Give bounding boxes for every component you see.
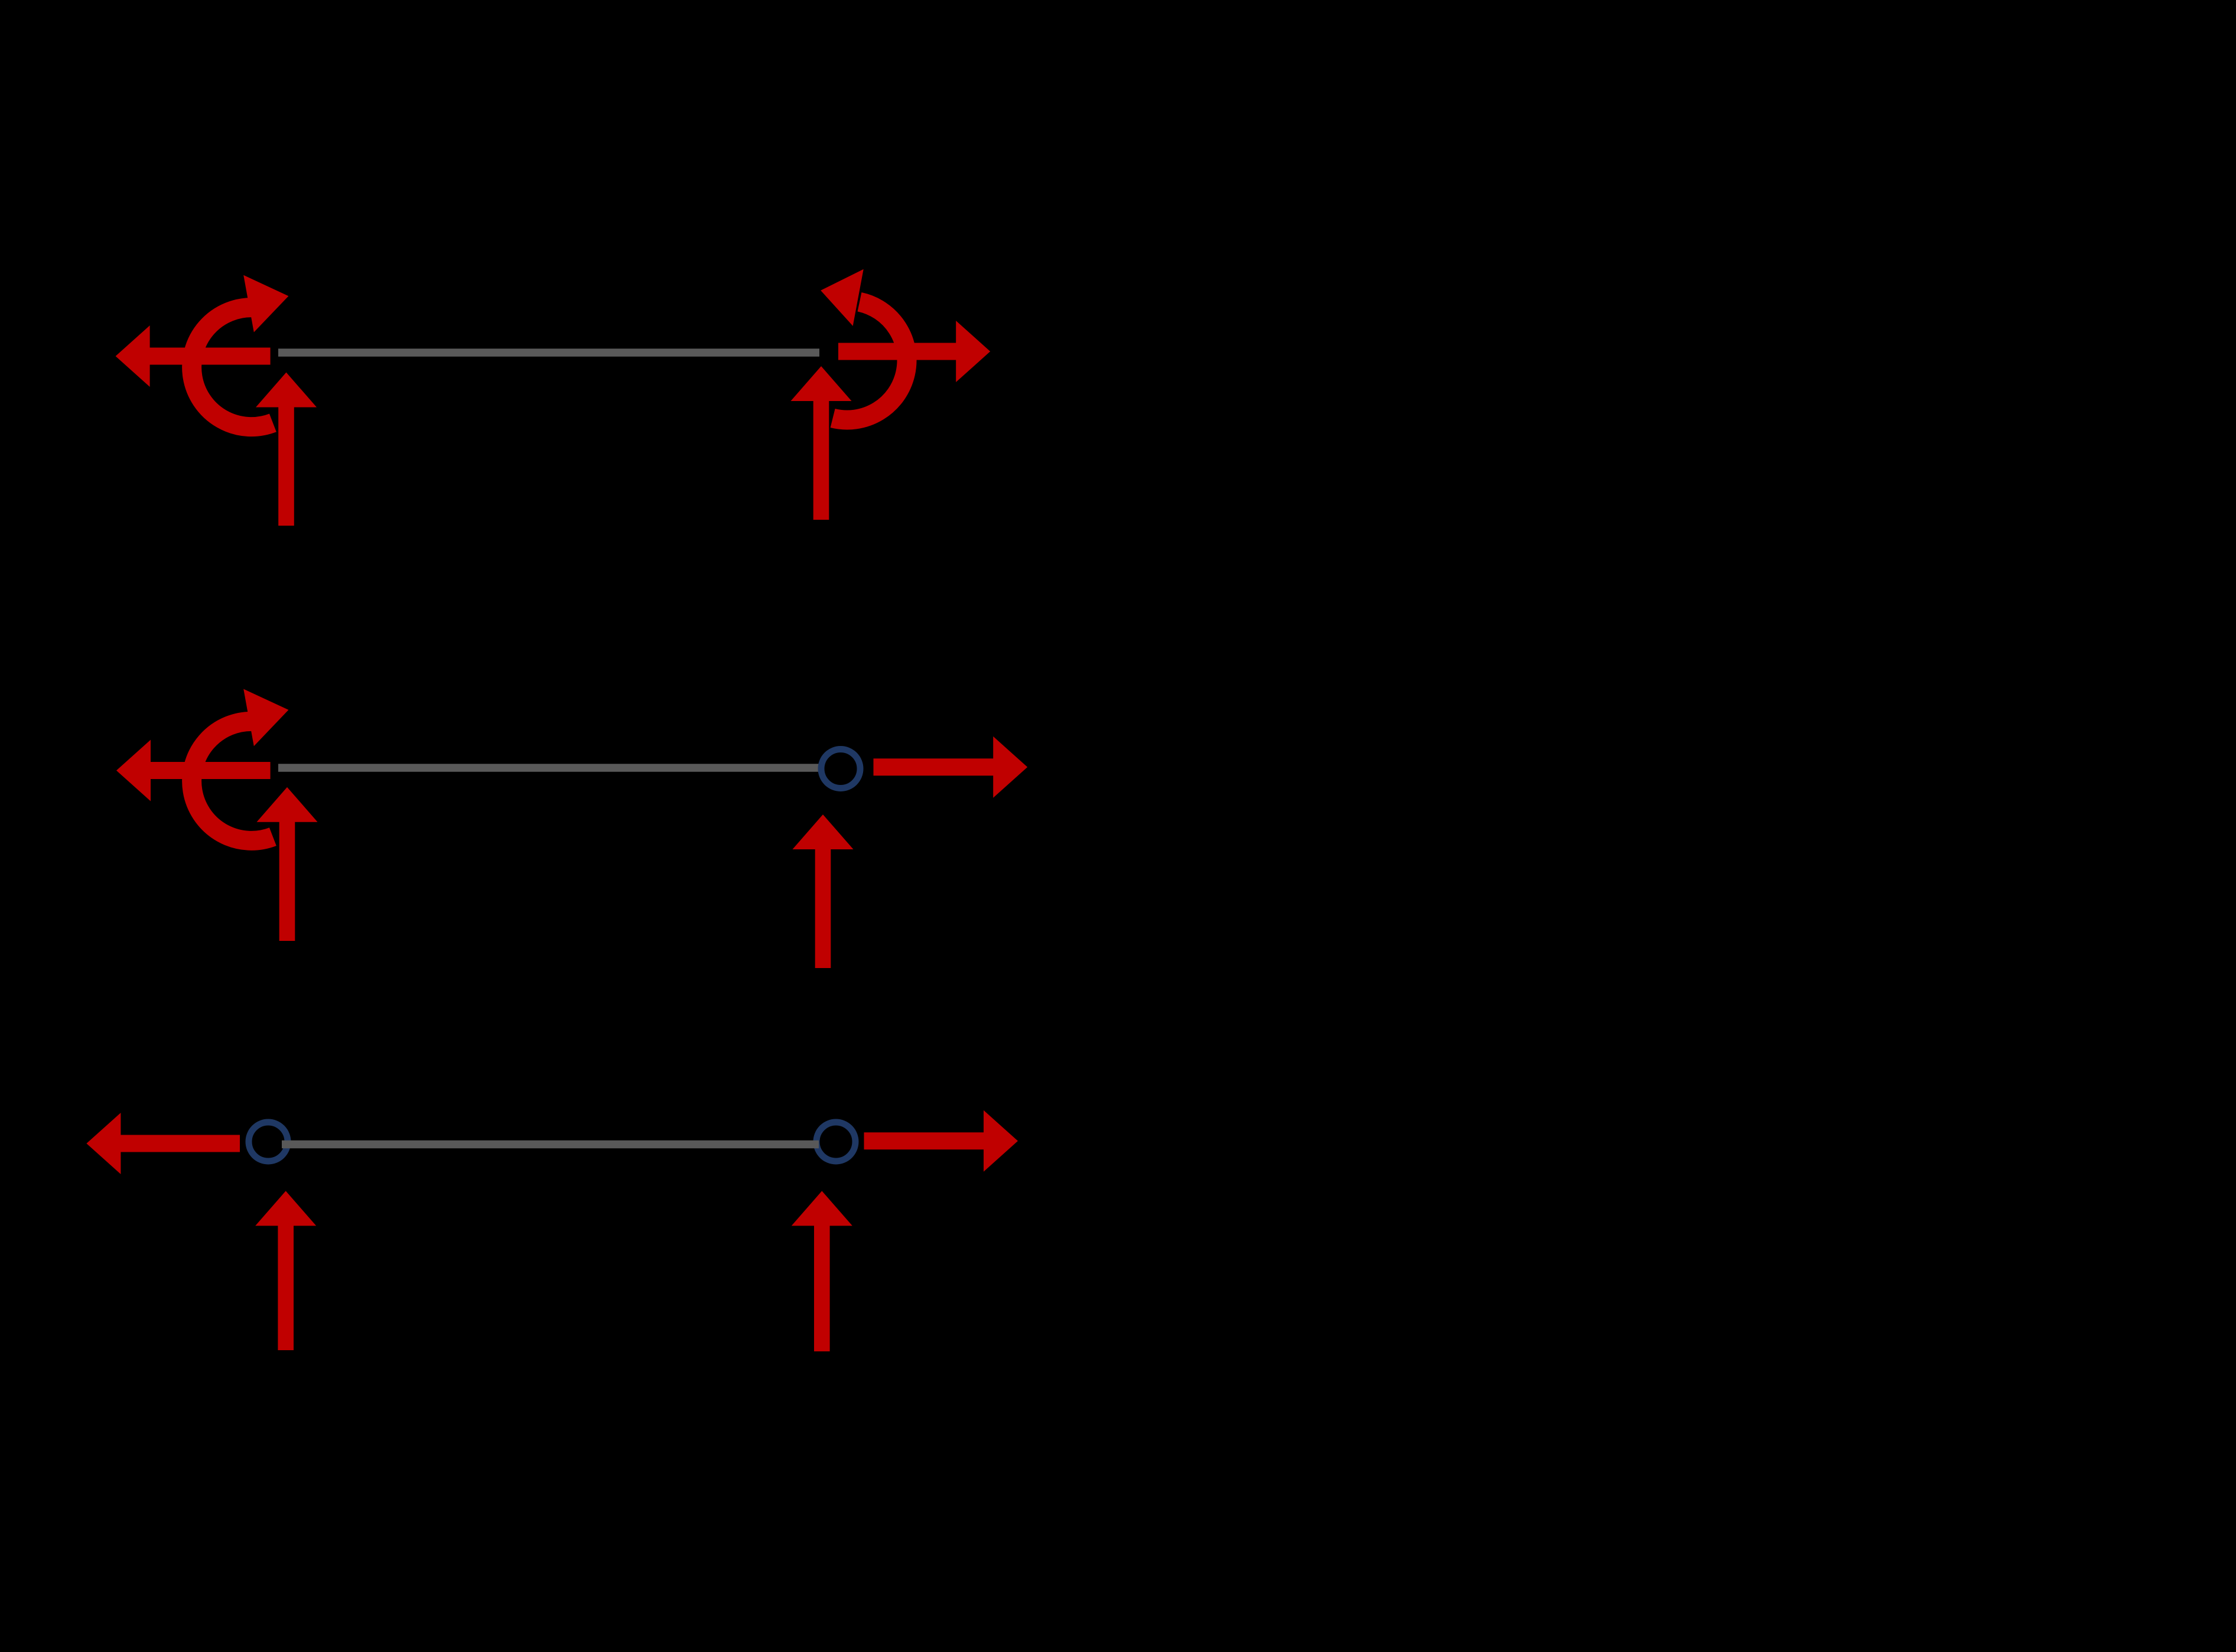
vertical reaction arrow right (row 1) [791,366,852,520]
vertical reaction arrow right (row 2) [793,814,854,968]
pin circle right (row 2) [821,750,860,788]
moment arc left (row 1) [192,275,289,427]
moment arc right (row 1) [821,269,907,420]
moment arc left (row 2) [192,689,289,841]
beam 1 [278,348,819,357]
vertical reaction arrow right (row 3) [792,1191,852,1351]
horizontal reaction arrow right (row 1) [838,321,990,382]
pin circle right (row 3) [816,1122,855,1161]
horizontal reaction arrow right (row 2) [874,737,1028,798]
vertical reaction arrow left (row 3) [255,1191,316,1350]
horizontal reaction arrow left (row 3) [86,1113,240,1174]
pin circle left (row 3) [249,1122,288,1161]
vertical reaction arrow left (row 1) [256,373,317,526]
vertical reaction arrow left (row 2) [257,787,318,941]
horizontal reaction arrow left (row 2) [116,740,271,801]
horizontal reaction arrow left (row 1) [116,325,271,387]
horizontal reaction arrow right (row 3) [864,1110,1018,1172]
beam 3 [282,1141,819,1149]
beam 2 [278,764,821,772]
